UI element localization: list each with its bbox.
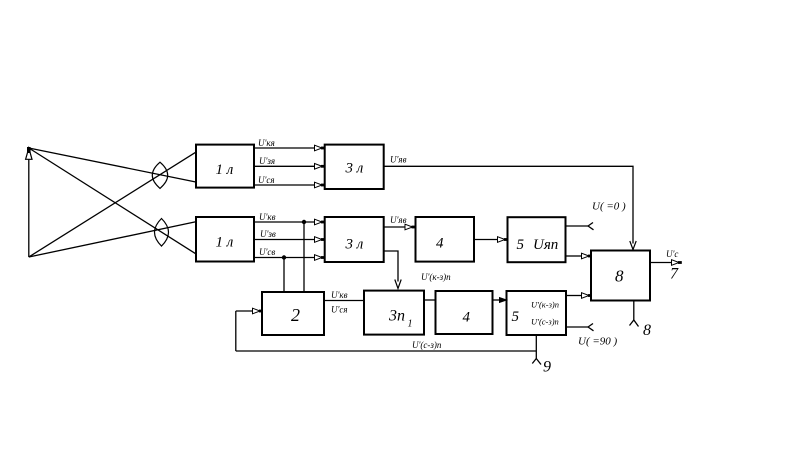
svg-text:U'яв: U'яв (390, 215, 407, 225)
svg-text:U'кв: U'кв (331, 290, 348, 300)
svg-text:U'c: U'c (666, 249, 678, 259)
svg-text:5: 5 (517, 237, 525, 253)
svg-text:4: 4 (436, 235, 444, 251)
svg-text:U'кв: U'кв (259, 212, 276, 222)
svg-text:1: 1 (408, 319, 413, 330)
svg-text:1 л: 1 л (216, 162, 234, 178)
svg-text:9: 9 (543, 359, 551, 376)
svg-text:Uяп: Uяп (533, 237, 558, 253)
svg-text:2: 2 (291, 305, 300, 325)
svg-text:U'ся: U'ся (258, 175, 275, 185)
svg-text:3 л: 3 л (345, 161, 364, 177)
svg-text:3п: 3п (388, 308, 405, 325)
svg-text:4: 4 (463, 309, 471, 325)
svg-text:7: 7 (670, 266, 679, 283)
svg-text:1 л: 1 л (216, 235, 234, 251)
svg-text:U( =90 ): U( =90 ) (578, 336, 618, 348)
svg-text:3 л: 3 л (345, 236, 364, 252)
svg-text:U'зв: U'зв (260, 229, 276, 239)
svg-text:U( =0 ): U( =0 ) (592, 201, 626, 213)
svg-text:U'кя: U'кя (258, 138, 275, 148)
svg-text:8: 8 (615, 267, 624, 286)
svg-text:U'(к-з)п: U'(к-з)п (531, 300, 559, 310)
svg-text:U'яв: U'яв (390, 155, 407, 165)
svg-text:U'(с-з)п: U'(с-з)п (412, 340, 442, 350)
svg-text:U'св: U'св (259, 247, 275, 257)
svg-text:5: 5 (512, 309, 520, 325)
svg-text:8: 8 (643, 322, 651, 339)
svg-text:U'ся: U'ся (331, 305, 348, 315)
svg-text:U'(к-з)п: U'(к-з)п (421, 272, 451, 282)
svg-text:U'зя: U'зя (259, 156, 275, 166)
svg-text:U'(с-з)п: U'(с-з)п (531, 317, 559, 327)
